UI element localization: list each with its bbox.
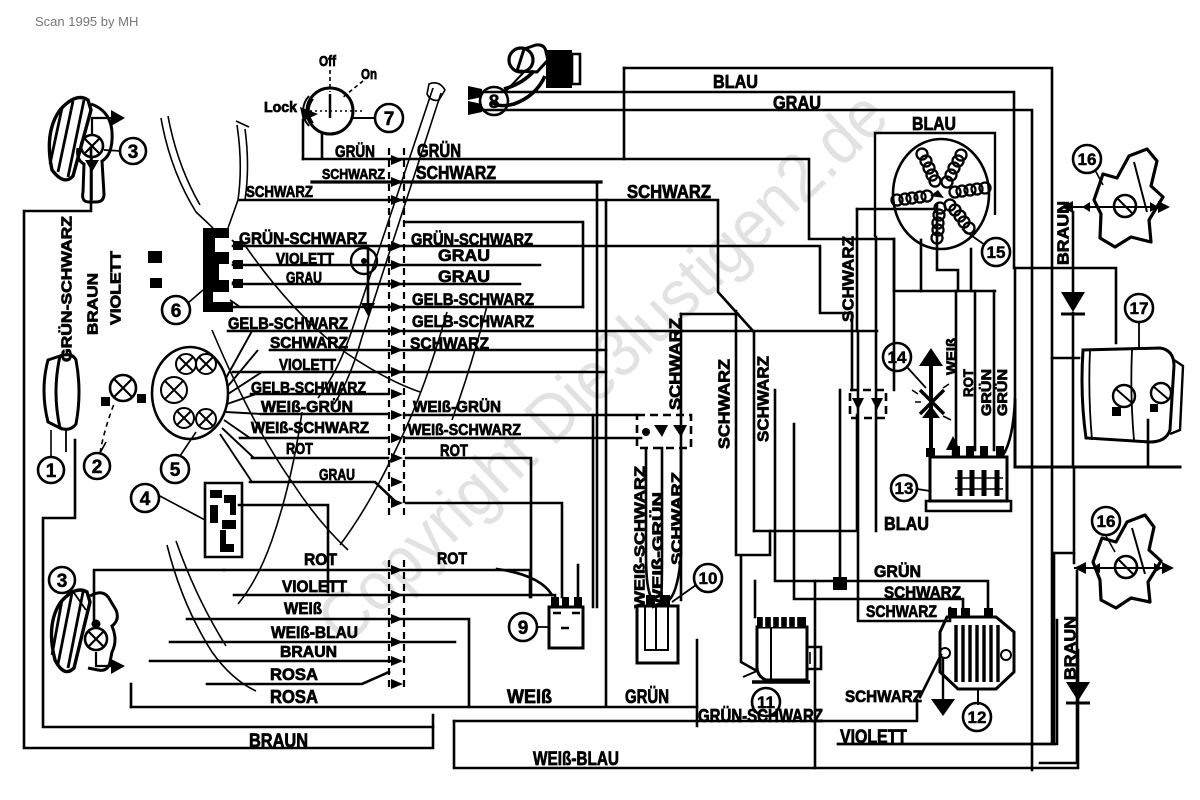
wire dashed pin2 down — [875, 237, 878, 531]
svg-text:SCHWARZ: SCHWARZ — [756, 356, 773, 442]
pilot bulb 2 — [110, 375, 136, 401]
ignition to circle7 link — [353, 117, 376, 119]
svg-text:ROT: ROT — [304, 550, 338, 569]
spark gap 14 arrow up2 — [922, 406, 940, 418]
wire SCHWARZ2 to regulator — [858, 331, 950, 621]
svg-text:11: 11 — [757, 693, 775, 712]
headlamp 1 stem — [65, 430, 67, 452]
callout 15 — [982, 238, 1010, 266]
svg-text:3: 3 — [57, 571, 68, 592]
wire U return — [406, 222, 583, 307]
turn signal 3 bottom body right — [88, 593, 117, 671]
wire GRAU row1 — [233, 283, 520, 286]
svg-text:15: 15 — [987, 243, 1006, 262]
callout 3 — [49, 567, 75, 593]
wire coil feed GRUEN — [754, 581, 757, 617]
svg-text:SCHWARZ: SCHWARZ — [845, 687, 922, 706]
svg-text:GRÜN: GRÜN — [417, 141, 461, 161]
svg-text:SCHWARZ: SCHWARZ — [668, 318, 685, 410]
svg-text:VIOLETT: VIOLETT — [107, 251, 124, 325]
spark gap 14 arrow up — [919, 348, 943, 366]
regulator 12 terminals — [948, 608, 993, 617]
svg-text:BLAU: BLAU — [912, 114, 956, 134]
turn signal 3 bottom body leaf — [51, 590, 90, 672]
svg-text:GELB-SCHWARZ: GELB-SCHWARZ — [412, 290, 534, 309]
svg-text:ROSA: ROSA — [270, 687, 318, 707]
svg-text:WEIß: WEIß — [943, 338, 959, 375]
svg-text:WEIß-GRÜN: WEIß-GRÜN — [649, 492, 666, 608]
turn signal 3 top bulb — [81, 135, 103, 157]
svg-text:GRÜN-SCHWARZ: GRÜN-SCHWARZ — [58, 216, 75, 362]
callout 11 — [752, 688, 780, 716]
svg-text:GRAU: GRAU — [319, 467, 355, 484]
wire GELB-SCHWARZ row2 — [228, 330, 877, 333]
wire loom left edge — [680, 314, 683, 600]
regulator ground arrow — [942, 658, 944, 699]
svg-text:1: 1 — [46, 461, 57, 482]
arrow stub head — [361, 303, 375, 316]
wire stator bottom bus — [894, 290, 995, 293]
wire coil drop from junction — [741, 556, 757, 671]
svg-text:BLAU: BLAU — [884, 514, 929, 534]
cluster 5 plate — [152, 347, 228, 439]
wire stator feed — [857, 208, 934, 211]
wire BLAU to regulator — [754, 415, 857, 531]
wire coil right drop — [814, 581, 817, 768]
svg-text:VIOLETT: VIOLETT — [276, 251, 334, 268]
wire rectifier pointer wire — [497, 569, 552, 595]
callout 9 — [509, 613, 537, 641]
wire switch left drop — [302, 120, 305, 159]
wire coil aux blob — [833, 577, 847, 590]
wire WEISS lower — [187, 619, 469, 706]
battery 13 fuses — [960, 470, 997, 496]
wire GELB-SCHWARZ row3 — [251, 393, 388, 396]
svg-text:WEIß-GRÜN: WEIß-GRÜN — [413, 397, 501, 416]
svg-text:Scan 1995 by MH: Scan 1995 by MH — [35, 14, 138, 29]
wire GRAU top — [483, 92, 1116, 343]
tail lamp 17 square — [1112, 404, 1158, 416]
dashed connector mid — [637, 415, 691, 448]
wire SCHWARZ long — [240, 200, 754, 531]
svg-text:BRAUN: BRAUN — [1056, 201, 1073, 265]
ignition axis dotted — [310, 110, 362, 112]
svg-text:WEIß: WEIß — [507, 687, 552, 708]
wire VIOLETT bottom — [838, 620, 1057, 744]
item4 pointer — [158, 495, 205, 520]
callout 1 — [38, 457, 64, 483]
svg-text:14: 14 — [888, 348, 907, 367]
wire VIOLETT lower — [234, 595, 555, 597]
rectifier 9 pointer — [536, 626, 549, 628]
brake switch 10 pointer — [672, 585, 696, 602]
dashed connector right — [850, 390, 886, 418]
wire ROT row — [252, 457, 388, 460]
wire ROSA lower2 — [131, 706, 697, 709]
row start ticks — [233, 241, 243, 288]
battery arrow up — [946, 436, 960, 450]
turn signal 16 BR bulb — [1115, 556, 1137, 578]
svg-text:WEIß-SCHWARZ: WEIß-SCHWARZ — [631, 466, 648, 608]
callout 5 — [161, 455, 189, 483]
wire battery feed 2 — [974, 291, 977, 450]
svg-text:16: 16 — [1097, 512, 1116, 531]
wire battery feed 3 — [993, 291, 996, 450]
svg-text:ROT: ROT — [286, 441, 313, 458]
turn signal 16 BR pointer — [1106, 536, 1115, 552]
svg-text:BLAU: BLAU — [713, 72, 758, 92]
switch 6 small squares — [148, 251, 162, 288]
svg-text:17: 17 — [1130, 299, 1149, 318]
svg-text:ROT: ROT — [960, 369, 976, 397]
svg-text:GRAU: GRAU — [438, 267, 490, 286]
wire BRAUN lower — [150, 660, 390, 663]
regulator 12 fins — [956, 625, 998, 682]
wire WEISS-BLAU bottom — [454, 650, 1078, 768]
wire turnsignal BR down — [1040, 571, 1077, 763]
ignition switch U7 body — [307, 88, 353, 134]
wire brake switch lead1 — [646, 448, 652, 599]
svg-text:SCHWARZ: SCHWARZ — [884, 583, 961, 602]
wire VIOLETT row2 — [233, 371, 606, 374]
svg-text:Lock: Lock — [264, 99, 298, 116]
wire stator out 1 — [893, 239, 896, 291]
switch6 fan wires — [230, 240, 240, 307]
svg-text:GELB-SCHWARZ: GELB-SCHWARZ — [251, 380, 366, 397]
svg-text:SCHWARZ: SCHWARZ — [246, 184, 313, 201]
svg-text:GRÜN: GRÜN — [978, 369, 994, 416]
svg-text:GELB-SCHWARZ: GELB-SCHWARZ — [412, 312, 534, 331]
ignition On dashed pointer — [342, 81, 363, 98]
coil 11 pointer — [743, 671, 757, 677]
wire WEISS-GRUEN right — [406, 414, 637, 417]
spark plug 8 cap — [517, 45, 548, 72]
svg-text:SCHWARZ: SCHWARZ — [410, 334, 489, 353]
turn signal 3 bottom arrow — [96, 652, 111, 666]
item1 pointer — [50, 430, 52, 458]
spark plug 8 connector marks — [468, 86, 482, 115]
wire GRUEN-SCHWARZ row — [233, 246, 852, 390]
wire brake switch lead2 — [661, 448, 662, 599]
wire turnsignal TR — [1072, 212, 1075, 293]
spark plug 8 knob — [509, 48, 533, 72]
svg-text:ROT: ROT — [437, 549, 468, 568]
callout 7 — [375, 104, 403, 132]
wire SCHWARZ ignition — [312, 180, 601, 183]
wire mid vertical B — [605, 200, 608, 706]
ignition Off dashed pointer — [329, 70, 331, 92]
svg-text:SCHWARZ: SCHWARZ — [717, 359, 734, 449]
tail lamp 17 pointer — [1138, 322, 1140, 348]
callout 13 — [891, 475, 917, 501]
svg-text:5: 5 — [170, 460, 181, 481]
cluster bulbs — [161, 354, 216, 429]
stator 15 frame — [875, 133, 995, 237]
brake switch 10 terminals — [646, 595, 670, 605]
wire right bus — [483, 110, 1032, 770]
svg-text:Off: Off — [319, 53, 337, 70]
svg-text:GRAU: GRAU — [438, 246, 490, 265]
vehicle sketch — [161, 83, 487, 691]
dimmer switch 4 body — [205, 483, 242, 557]
wire stub arrow row — [367, 246, 370, 303]
rectifier 9 body — [549, 607, 583, 648]
callout 8 — [480, 87, 508, 115]
coil 11 right tab — [807, 647, 821, 669]
callout 4 — [131, 484, 159, 512]
svg-text:GRAU: GRAU — [773, 93, 821, 113]
svg-text:WEIß-BLAU: WEIß-BLAU — [533, 749, 619, 770]
callout 10 — [694, 564, 722, 592]
callout 16 — [1073, 145, 1101, 173]
wire left border loop — [24, 148, 433, 748]
regulator 12 pointer — [977, 689, 979, 705]
svg-text:9: 9 — [518, 618, 529, 639]
wire VIOLETT row — [233, 264, 540, 267]
svg-text:WEIß-BLAU: WEIß-BLAU — [271, 623, 358, 642]
callout 6 — [162, 296, 190, 324]
svg-text:ROT: ROT — [440, 441, 468, 460]
svg-text:6: 6 — [171, 301, 182, 322]
turn signal 16 TR bulb — [1114, 195, 1136, 217]
item2 pointer link — [100, 442, 106, 453]
battery 13 pointer — [917, 489, 930, 491]
svg-text:7: 7 — [384, 109, 395, 130]
svg-text:2: 2 — [92, 457, 103, 478]
wire turnsignal BR — [1073, 467, 1076, 563]
callout 3 — [120, 138, 146, 164]
wire tail lamp ground — [1147, 420, 1150, 467]
connector ladder dashed right — [403, 148, 405, 690]
turn signal 3 top stem — [91, 157, 93, 200]
callout 12 — [963, 703, 991, 731]
svg-text:SCHWARZ: SCHWARZ — [866, 602, 937, 621]
svg-text:VIOLETT: VIOLETT — [840, 727, 907, 748]
wire GELB-SCHWARZ row1 — [228, 306, 530, 309]
svg-text:GRÜN: GRÜN — [625, 687, 669, 708]
svg-text:12: 12 — [968, 708, 987, 727]
turn signal 3 top arrow — [92, 118, 111, 134]
svg-text:SCHWARZ: SCHWARZ — [322, 166, 385, 183]
wire item4 leads — [239, 505, 328, 592]
wire BRAUN right vertical — [1053, 553, 1056, 744]
svg-text:SCHWARZ: SCHWARZ — [841, 236, 858, 322]
coil 11 bottom edge — [752, 680, 810, 683]
wire ROSA lower — [207, 672, 389, 684]
coil 11 body — [757, 627, 807, 680]
turn signal 16 TR body — [1094, 149, 1163, 247]
spark plug 8 boot — [504, 71, 534, 89]
svg-text:SCHWARZ: SCHWARZ — [668, 472, 685, 565]
wire stator out 2 — [920, 240, 923, 291]
svg-text:SCHWARZ: SCHWARZ — [270, 335, 348, 352]
diode BR — [1066, 682, 1090, 701]
wire diode TR down — [1072, 313, 1075, 467]
wire stator out 4 — [970, 249, 973, 291]
pilot bulb 2 pointer — [100, 404, 114, 453]
svg-text:BRAUN: BRAUN — [84, 273, 101, 335]
spark plug 8 body black — [546, 50, 572, 88]
svg-text:13: 13 — [895, 479, 914, 498]
wire battery feed 4 — [1003, 268, 1015, 455]
callout 2 — [84, 453, 110, 479]
wire mid vertical C — [592, 415, 595, 607]
turn signal 3 bottom link — [72, 590, 86, 610]
wire regulator SCHWARZ diag — [920, 655, 941, 697]
stator 15 coils — [892, 149, 991, 244]
wire item3 bottom link — [94, 570, 224, 625]
wire stator out 3 — [937, 205, 958, 291]
wire WEISS-SCHWARZ row — [240, 437, 388, 440]
wire WEISS-BLAU lower — [170, 641, 455, 644]
svg-text:4: 4 — [140, 489, 151, 510]
svg-text:VIOLETT: VIOLETT — [282, 577, 348, 596]
svg-text:BRAUN: BRAUN — [280, 644, 337, 661]
brake switch 10 body — [637, 606, 678, 663]
turn signal 16 BR wire arrows — [1074, 567, 1170, 569]
wire WEISS-SCHWARZ right — [406, 437, 641, 440]
diode TR — [1061, 292, 1085, 312]
wire loom mid vertical — [736, 311, 770, 555]
callout 17 — [1125, 294, 1153, 322]
wire item10 right drop — [696, 640, 699, 726]
svg-text:WEIß: WEIß — [284, 599, 322, 618]
ignition Lock arrow — [300, 107, 318, 121]
svg-text:On: On — [361, 66, 377, 83]
wire ROSA left vertical — [130, 684, 133, 707]
svg-text:GRÜN: GRÜN — [335, 142, 375, 161]
svg-text:WEIß-SCHWARZ: WEIß-SCHWARZ — [251, 420, 369, 437]
turn signal 3 bottom dot — [92, 620, 101, 629]
callout 14 — [883, 343, 911, 371]
circled numbers — [38, 87, 1153, 731]
wire GRUEN ignition — [303, 159, 894, 390]
svg-text:BRAUN: BRAUN — [249, 731, 308, 752]
cluster 5 pointer — [180, 432, 196, 456]
battery fusebox 13 body — [930, 457, 1007, 501]
connector ladder dashed left — [388, 148, 390, 690]
headlamp 1 lens — [44, 356, 60, 428]
wire BLAU top — [624, 68, 1052, 744]
wire GRAU right — [406, 503, 562, 597]
callout 16 — [1092, 507, 1120, 535]
stator 15 pointer — [962, 229, 985, 245]
wire battery feed 1 — [955, 291, 958, 450]
cluster fan wires — [220, 331, 262, 482]
turn signal 3 top link to circle — [104, 150, 121, 151]
svg-text:WEIß-SCHWARZ: WEIß-SCHWARZ — [408, 422, 521, 439]
wire WEISS-GRUEN row — [261, 413, 388, 416]
turn signal 16 TR link — [1095, 170, 1103, 185]
wire battery right — [1015, 400, 1180, 467]
wire ROT right to rectifier — [406, 458, 531, 597]
svg-text:8: 8 — [489, 92, 500, 113]
svg-text:ROSA: ROSA — [270, 665, 318, 684]
spark gap 14 pointer — [907, 367, 926, 388]
svg-text:3: 3 — [128, 142, 139, 163]
turn signal 3 top body right — [78, 104, 113, 202]
wire coil feed — [856, 209, 859, 331]
handlebar switch 6 body — [203, 228, 233, 312]
svg-text:VIOLETT: VIOLETT — [279, 357, 336, 374]
svg-text:WEIß-GRÜN: WEIß-GRÜN — [261, 397, 353, 416]
wire coil top lead — [839, 390, 842, 581]
spark plug 8 link — [505, 72, 524, 92]
ignition switch key mark — [329, 94, 332, 118]
turn signal 3 top body leaf — [49, 98, 91, 180]
svg-text:16: 16 — [1078, 150, 1097, 169]
switch 6 contact circle — [351, 248, 377, 274]
wire SCHWARZ to regulator — [794, 424, 963, 608]
wire headlamp ground — [43, 440, 433, 727]
wire rectifier lead3 — [577, 565, 580, 597]
wire spark to battery — [929, 366, 933, 450]
svg-text:SCHWARZ: SCHWARZ — [627, 182, 711, 202]
turn signal 16 BR body — [1093, 515, 1161, 608]
regulator 12 body — [940, 617, 1014, 689]
wire ROT lower — [224, 570, 530, 597]
svg-text:GRÜN-SCHWARZ: GRÜN-SCHWARZ — [239, 229, 367, 248]
rectifier 9 terminals — [551, 597, 582, 607]
regulator 12 eyelets — [940, 648, 950, 658]
svg-text:BRAUN: BRAUN — [1063, 616, 1080, 680]
wire tail lamp feed — [1052, 357, 1079, 360]
turn signal 16 TR wire arrows — [1073, 206, 1166, 208]
svg-text:GRAU: GRAU — [286, 270, 322, 287]
tail lamp 17 body — [1082, 348, 1174, 442]
wire GRAU row2 — [250, 482, 397, 503]
dimmer switch 4 contacts — [210, 490, 236, 552]
wire from plug junction down — [623, 68, 626, 159]
stator 15 ring — [893, 139, 989, 249]
coil 11 terminal comb — [757, 617, 806, 627]
wire SCHWARZ row — [270, 349, 606, 352]
wire ignition to left border — [321, 135, 324, 158]
battery 13 terminals — [926, 446, 1004, 457]
svg-text:GELB-SCHWARZ: GELB-SCHWARZ — [228, 314, 348, 333]
tail lamp 17 bulbs — [1113, 385, 1135, 407]
spark gap 14 X — [920, 390, 944, 414]
wire mid vertical A — [596, 182, 599, 607]
wire GRUEN to regulator — [775, 390, 988, 608]
wire GRUEN-SCHWARZ bottom — [454, 700, 917, 721]
connector arrows — [391, 155, 403, 689]
svg-text:GRÜN: GRÜN — [994, 369, 1010, 416]
wire BRAUN right loop — [1054, 552, 1074, 555]
svg-text:10: 10 — [699, 569, 718, 588]
item6 pointer — [188, 290, 203, 303]
svg-text:SCHWARZ: SCHWARZ — [416, 163, 496, 183]
svg-text:GRÜN: GRÜN — [874, 562, 921, 581]
wire brake switch lead3 — [670, 448, 681, 599]
wire loom top edge — [681, 313, 738, 316]
turn signal 3 bottom bulb — [85, 628, 107, 650]
